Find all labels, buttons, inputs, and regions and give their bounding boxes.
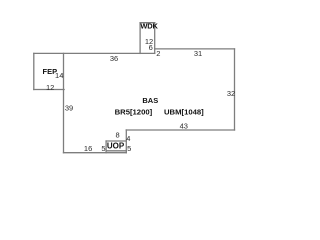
wall bottom edge xyxy=(64,152,127,154)
svg-text:2: 2 xyxy=(156,49,160,58)
svg-text:BAS: BAS xyxy=(142,96,158,105)
svg-text:BR5[1200]: BR5[1200] xyxy=(115,108,153,117)
wall main left xyxy=(63,53,65,152)
svg-text:WDK: WDK xyxy=(140,22,158,31)
wall UOP bottom xyxy=(106,150,126,152)
wall WDK top xyxy=(140,22,155,24)
wall top edge (FEP top + main top) xyxy=(34,52,155,54)
wall FEP bottom xyxy=(34,89,64,91)
wall WDK right + 2ft jog xyxy=(154,23,156,54)
wall FEP left xyxy=(33,53,35,89)
svg-text:43: 43 xyxy=(180,122,188,131)
svg-text:14: 14 xyxy=(55,71,63,80)
svg-text:16: 16 xyxy=(84,144,92,153)
wall top-right edge xyxy=(155,48,235,50)
svg-text:4: 4 xyxy=(126,134,130,143)
svg-text:5: 5 xyxy=(127,144,131,153)
svg-text:12: 12 xyxy=(46,83,54,92)
svg-text:UOP: UOP xyxy=(107,142,125,151)
wall WDK left xyxy=(139,23,141,54)
wall step + UOP right xyxy=(125,130,127,153)
wall right edge xyxy=(234,49,236,130)
svg-text:8: 8 xyxy=(116,131,120,140)
svg-text:36: 36 xyxy=(110,54,118,63)
svg-text:6: 6 xyxy=(149,43,153,52)
svg-text:31: 31 xyxy=(194,49,202,58)
svg-text:32: 32 xyxy=(227,89,235,98)
svg-text:39: 39 xyxy=(65,104,73,113)
svg-text:5: 5 xyxy=(101,144,105,153)
wall UOP left xyxy=(105,141,107,153)
wall UOP top xyxy=(106,140,126,142)
wall bottom-right edge xyxy=(126,129,234,131)
svg-text:UBM[1048]: UBM[1048] xyxy=(164,108,204,117)
